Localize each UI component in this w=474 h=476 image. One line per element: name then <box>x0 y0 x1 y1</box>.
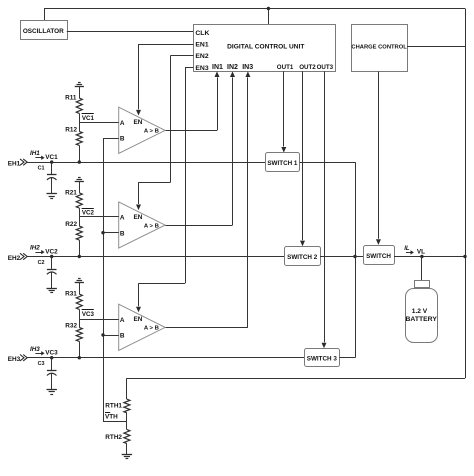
svg-text:R12: R12 <box>65 127 77 134</box>
svg-text:EN: EN <box>134 119 143 126</box>
svg-text:EN2: EN2 <box>195 53 208 60</box>
svg-text:R32: R32 <box>65 323 77 330</box>
svg-text:EH1: EH1 <box>8 160 21 167</box>
svg-text:EN: EN <box>134 214 143 221</box>
svg-text:SWITCH 3: SWITCH 3 <box>307 355 338 362</box>
svg-text:OUT2: OUT2 <box>299 64 316 71</box>
svg-text:VC3: VC3 <box>82 311 95 318</box>
svg-text:IH2: IH2 <box>30 245 40 252</box>
svg-text:BATTERY: BATTERY <box>406 316 438 323</box>
svg-text:B: B <box>120 230 125 237</box>
svg-text:A: A <box>120 215 125 222</box>
svg-text:B: B <box>120 136 125 143</box>
svg-text:C1: C1 <box>38 165 45 171</box>
svg-text:R22: R22 <box>65 221 77 228</box>
svg-text:R11: R11 <box>65 95 77 102</box>
svg-text:EH3: EH3 <box>8 356 21 363</box>
svg-text:SWITCH: SWITCH <box>366 253 391 260</box>
svg-text:EN: EN <box>134 316 143 323</box>
svg-text:RTH1: RTH1 <box>105 402 122 409</box>
svg-text:CLK: CLK <box>195 30 209 37</box>
svg-text:SWITCH 1: SWITCH 1 <box>267 160 298 167</box>
svg-text:DIGITAL CONTROL UNIT: DIGITAL CONTROL UNIT <box>227 43 304 50</box>
svg-text:VC3: VC3 <box>45 350 58 357</box>
svg-text:SWITCH 2: SWITCH 2 <box>287 254 318 261</box>
svg-text:C3: C3 <box>38 361 45 367</box>
svg-text:A > B: A > B <box>144 223 159 229</box>
svg-text:IN1: IN1 <box>212 64 223 71</box>
svg-text:VC1: VC1 <box>45 154 58 161</box>
svg-text:A: A <box>120 317 125 324</box>
svg-text:EN3: EN3 <box>195 65 208 72</box>
svg-text:VTH: VTH <box>105 413 118 420</box>
svg-text:EN1: EN1 <box>195 42 208 49</box>
svg-text:OUT1: OUT1 <box>277 64 294 71</box>
svg-text:R21: R21 <box>65 189 77 196</box>
svg-text:A > B: A > B <box>144 326 159 332</box>
svg-text:EH2: EH2 <box>8 255 21 262</box>
svg-text:IH3: IH3 <box>30 346 40 353</box>
svg-text:B: B <box>120 333 125 340</box>
svg-text:IH1: IH1 <box>30 150 40 157</box>
svg-text:CHARGE CONTROL: CHARGE CONTROL <box>351 45 407 51</box>
svg-text:C2: C2 <box>38 260 45 266</box>
svg-text:VL: VL <box>417 249 425 256</box>
svg-text:A > B: A > B <box>144 129 159 135</box>
svg-text:OSCILLATOR: OSCILLATOR <box>23 28 64 35</box>
svg-text:A: A <box>120 120 125 127</box>
svg-text:1.2 V: 1.2 V <box>412 308 428 315</box>
svg-text:OUT3: OUT3 <box>317 64 334 71</box>
svg-text:VC2: VC2 <box>45 249 58 256</box>
svg-text:IL: IL <box>404 246 410 252</box>
svg-text:R31: R31 <box>65 291 77 298</box>
svg-text:IN3: IN3 <box>242 64 253 71</box>
svg-text:IN2: IN2 <box>227 64 238 71</box>
svg-text:VC1: VC1 <box>82 115 95 122</box>
svg-text:VC2: VC2 <box>82 210 95 217</box>
svg-text:RTH2: RTH2 <box>105 434 122 441</box>
